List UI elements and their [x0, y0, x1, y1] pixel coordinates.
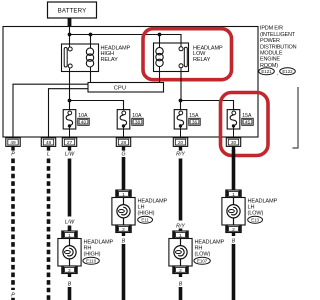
fuse number box 45 — [242, 118, 253, 125]
svg-text:E110: E110 — [86, 259, 96, 264]
connector oval E121 — [259, 68, 275, 75]
IPDM E/R outer box — [3, 27, 258, 138]
headlamp LH (HIGH) name label — [138, 199, 168, 217]
svg-text:L/W: L/W — [65, 219, 75, 225]
svg-text:1: 1 — [232, 192, 235, 198]
wire bus to high-relay switch — [69, 35, 71, 45]
svg-text:1: 1 — [68, 233, 71, 239]
svg-text:E13: E13 — [251, 218, 259, 223]
wire relay K1 switch to fuse bus — [69, 72, 71, 101]
red highlight around low relay — [143, 29, 232, 80]
IPDM E/R name label — [260, 26, 297, 69]
svg-text:B: B — [122, 238, 126, 244]
svg-text:BATTERY: BATTERY — [58, 8, 87, 15]
IPDM pin 27 — [62, 138, 76, 151]
IPDM pin 48 — [41, 138, 55, 151]
svg-text:CPU: CPU — [114, 86, 126, 92]
off-page bracket (right) — [293, 87, 299, 148]
svg-text:B: B — [68, 281, 72, 287]
svg-text:E107: E107 — [197, 259, 208, 264]
wire relay K2 switch to fuse bus — [180, 72, 182, 101]
CPU box — [88, 83, 164, 93]
headlamp RH (LOW) name label — [195, 240, 225, 258]
wire CPU to pin 49 — [13, 84, 88, 138]
fuse number box 36 — [189, 118, 200, 125]
svg-text:2: 2 — [179, 268, 182, 274]
wire into fuse 1 — [69, 101, 71, 112]
svg-text:P: P — [11, 152, 15, 158]
svg-text:(LOW): (LOW) — [195, 252, 211, 258]
wire P (shielded dash) to off-page — [11, 159, 15, 291]
IPDM pin 49 — [6, 138, 20, 151]
IPDM pin 20 — [173, 138, 187, 151]
headlamp RH (HIGH) name label — [84, 240, 114, 258]
svg-text:IPDM E/R: IPDM E/R — [260, 26, 283, 32]
fuse number box 40 — [78, 118, 89, 125]
wire B (RH low) — [179, 287, 183, 300]
svg-text:MODULE: MODULE — [260, 51, 283, 57]
svg-text:2: 2 — [68, 268, 71, 274]
svg-text:(HIGH): (HIGH) — [84, 252, 101, 258]
relay K2 HEADLAMP LOW RELAY — [154, 43, 189, 72]
battery B1 box — [48, 2, 97, 18]
wire B (RH high) — [68, 287, 72, 300]
svg-text:,: , — [277, 71, 278, 77]
svg-text:R/Y: R/Y — [176, 152, 185, 158]
wire G run — [122, 157, 126, 190]
wire bus to low-relay coil — [159, 35, 161, 44]
battery feed wire (thick) — [68, 18, 72, 27]
IPDM pin 30 — [226, 138, 240, 151]
supply bus wire to relays — [70, 35, 182, 44]
fuse number box 38 — [132, 118, 143, 125]
wire from pin 30 run — [232, 150, 236, 190]
relay K2 label — [193, 45, 223, 63]
wire L/W lower run — [68, 226, 72, 232]
IPDM pin 28 — [116, 138, 130, 151]
wire into fuse 3 — [180, 101, 182, 112]
red highlight around 15A fuse 45 and pin 30 — [221, 93, 269, 156]
svg-text:E121: E121 — [261, 69, 272, 74]
svg-text:40: 40 — [81, 120, 87, 125]
svg-text:RELAY: RELAY — [101, 57, 119, 63]
wire relay K1 coil to CPU — [90, 72, 92, 83]
svg-text:30: 30 — [231, 140, 237, 146]
fuse 10A (#40) box — [63, 110, 76, 139]
svg-text:2: 2 — [232, 227, 235, 233]
fuse feed bus (high) — [70, 101, 124, 110]
connector oval E11 — [138, 216, 153, 223]
svg-text:RELAY: RELAY — [193, 57, 211, 63]
svg-text:(LOW): (LOW) — [248, 211, 264, 217]
headlamp RH (HIGH) lamp symbol — [58, 231, 81, 274]
svg-text:P: P — [11, 293, 15, 299]
fuse 15A (#36) box — [174, 110, 187, 139]
wire B (LH high) — [122, 244, 126, 300]
battery wire inside IPDM — [69, 27, 71, 35]
svg-text:G: G — [121, 152, 125, 158]
svg-text:(INTELLIGENT: (INTELLIGENT — [260, 32, 296, 38]
svg-text:E11: E11 — [141, 218, 149, 223]
svg-text:38: 38 — [135, 120, 141, 125]
wire bus to high-relay coil — [90, 35, 92, 45]
node: low fuse bus junction — [179, 99, 183, 103]
svg-text:L/W: L/W — [65, 152, 75, 158]
wire R/Y lower run — [179, 229, 183, 232]
svg-text:28: 28 — [121, 140, 127, 146]
svg-text:R/Y: R/Y — [176, 223, 185, 229]
wire L/W upper run — [68, 159, 72, 217]
connector oval E107 — [194, 257, 210, 264]
headlamp RH (LOW) lamp symbol — [169, 231, 192, 274]
wire relay K2 coil to CPU — [159, 72, 161, 83]
fuse 10A (#38) box — [117, 110, 130, 139]
wire R/Y upper run — [179, 159, 183, 221]
node: low-relay coil junction — [158, 33, 162, 37]
svg-text:B: B — [232, 238, 236, 244]
svg-text:1: 1 — [179, 233, 182, 239]
svg-text:1: 1 — [122, 192, 125, 198]
relay K1 label — [101, 45, 131, 63]
svg-text:20: 20 — [178, 140, 184, 146]
svg-text:L: L — [47, 152, 50, 158]
fuse feed bus (low) — [181, 101, 234, 110]
headlamp LH (LOW) lamp symbol — [222, 190, 245, 233]
wire L (shielded dash) to off-page — [47, 159, 51, 300]
connector oval E122 — [280, 68, 296, 75]
svg-text:27: 27 — [67, 140, 73, 146]
node: high-relay coil junction — [89, 33, 93, 37]
headlamp LH (HIGH) lamp symbol — [112, 190, 135, 233]
svg-text:DISTRIBUTION: DISTRIBUTION — [260, 44, 297, 50]
wire CPU to pin 48 — [49, 89, 89, 138]
svg-text:(HIGH): (HIGH) — [138, 211, 155, 217]
wire P tail — [11, 298, 15, 300]
node: battery/high-relay junction — [68, 33, 72, 37]
node: high fuse bus junction — [68, 99, 72, 103]
svg-text:POWER: POWER — [260, 38, 280, 44]
svg-text:48: 48 — [46, 140, 52, 146]
headlamp LH (LOW) name label — [248, 199, 278, 217]
svg-text:ENGINE: ENGINE — [260, 57, 280, 63]
relay K1 HEADLAMP HIGH RELAY — [62, 44, 99, 72]
LH lamps ground stubs and B wires — [122, 233, 125, 237]
connector oval E13 — [248, 216, 263, 223]
wire B (LH low) — [232, 244, 236, 300]
svg-text:2: 2 — [122, 227, 125, 233]
svg-text:49: 49 — [10, 140, 16, 146]
svg-text:B: B — [179, 281, 183, 287]
fuse 15A (#45) box — [227, 110, 240, 139]
svg-text:36: 36 — [192, 120, 198, 125]
svg-text:45: 45 — [245, 120, 251, 125]
connector oval E110 — [83, 257, 99, 264]
svg-text:E122: E122 — [282, 69, 293, 74]
